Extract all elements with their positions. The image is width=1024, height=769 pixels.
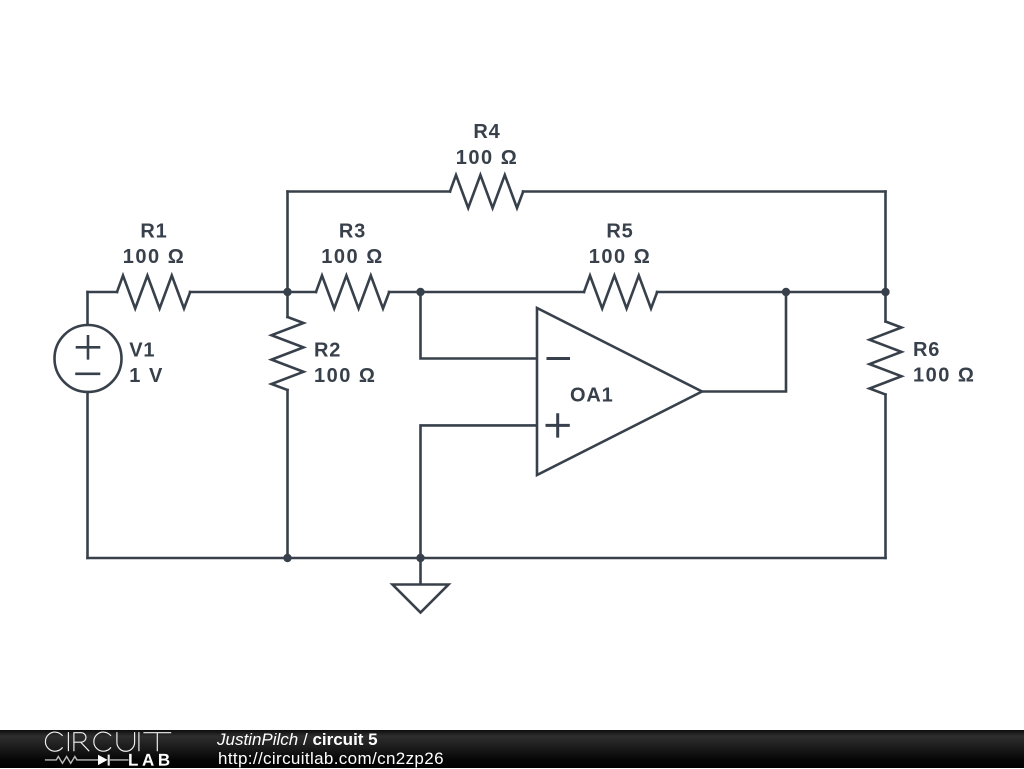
svg-text:100 Ω: 100 Ω — [589, 246, 651, 268]
logo letter T — [143, 733, 171, 752]
logo letter U — [117, 732, 135, 751]
node D junction dot — [881, 288, 889, 296]
wire: vertical from node A up to top wire — [286, 192, 289, 293]
resistor R5 body — [584, 276, 657, 309]
resistor R3 body — [316, 276, 389, 309]
svg-text:V1: V1 — [129, 340, 155, 362]
footer bar — [0, 730, 1024, 768]
svg-text:100 Ω: 100 Ω — [913, 365, 975, 387]
voltage source V1 circle — [55, 325, 122, 392]
wire: R2 bottom lead — [286, 390, 289, 558]
svg-text:100 Ω: 100 Ω — [321, 246, 383, 268]
logo letter C — [45, 732, 62, 751]
wire: R2 top lead — [286, 292, 289, 317]
wire: ground stub — [419, 558, 422, 585]
wire: V1 top lead vertical — [86, 292, 89, 326]
wire: bottom ground rail — [88, 557, 886, 560]
svg-text:100 Ω: 100 Ω — [314, 365, 376, 387]
wire: V1 bottom lead — [86, 392, 89, 558]
logo resistor glyph — [45, 757, 129, 764]
wire: right column top (node D down to R6) — [884, 192, 887, 322]
op-amp OA1 triangle — [537, 308, 702, 475]
wire: V1 top lead to R1 — [88, 291, 118, 294]
wire: top feedback wire right segment — [523, 190, 886, 193]
wire: R3 to R5 through node B — [389, 291, 584, 294]
svg-text:100 Ω: 100 Ω — [456, 147, 518, 169]
resistor R4 body — [450, 175, 523, 208]
OA1 plus input marker — [547, 415, 568, 436]
CircuitLab logo — [0, 728, 200, 768]
svg-text:100 Ω: 100 Ω — [123, 246, 185, 268]
svg-text:R4: R4 — [473, 121, 500, 143]
resistor R1 body — [117, 276, 190, 309]
logo diode glyph — [98, 755, 108, 765]
logo letter C — [94, 732, 111, 751]
wire: R1 to node A — [190, 291, 316, 294]
svg-text:R5: R5 — [606, 221, 633, 243]
svg-text:R3: R3 — [339, 221, 366, 243]
node F junction dot (ground) — [416, 554, 424, 562]
OA1 minus input marker — [548, 357, 569, 360]
wire: op-amp output to node C — [702, 292, 786, 392]
resistor R6 body (vertical) — [870, 322, 902, 395]
svg-text:R1: R1 — [140, 221, 167, 243]
footer title line — [217, 730, 717, 750]
logo letter R — [74, 733, 89, 752]
logo letter I — [138, 732, 140, 751]
wire: top feedback wire left segment — [288, 190, 451, 193]
node A junction dot — [283, 288, 291, 296]
svg-text:R2: R2 — [314, 340, 341, 362]
ground symbol — [393, 585, 449, 613]
wire: non-inverting input to ground column — [421, 425, 538, 558]
node E junction dot (R2 to rail) — [283, 554, 291, 562]
V1 minus sign — [77, 372, 100, 375]
wire: R6 bottom lead — [884, 395, 887, 559]
resistor R2 body (vertical) — [272, 317, 304, 390]
node C junction dot — [782, 288, 790, 296]
svg-text:1 V: 1 V — [129, 365, 164, 387]
wire: inverting input from node B — [421, 292, 538, 359]
logo letter I — [67, 732, 69, 751]
svg-text:OA1: OA1 — [570, 385, 614, 407]
node B junction dot — [416, 288, 424, 296]
svg-text:R6: R6 — [913, 339, 940, 361]
wire: R5 to right column through node C — [657, 291, 886, 294]
footer url line — [218, 749, 718, 769]
V1 plus sign — [77, 336, 99, 358]
svg-text:LAB: LAB — [128, 751, 174, 768]
